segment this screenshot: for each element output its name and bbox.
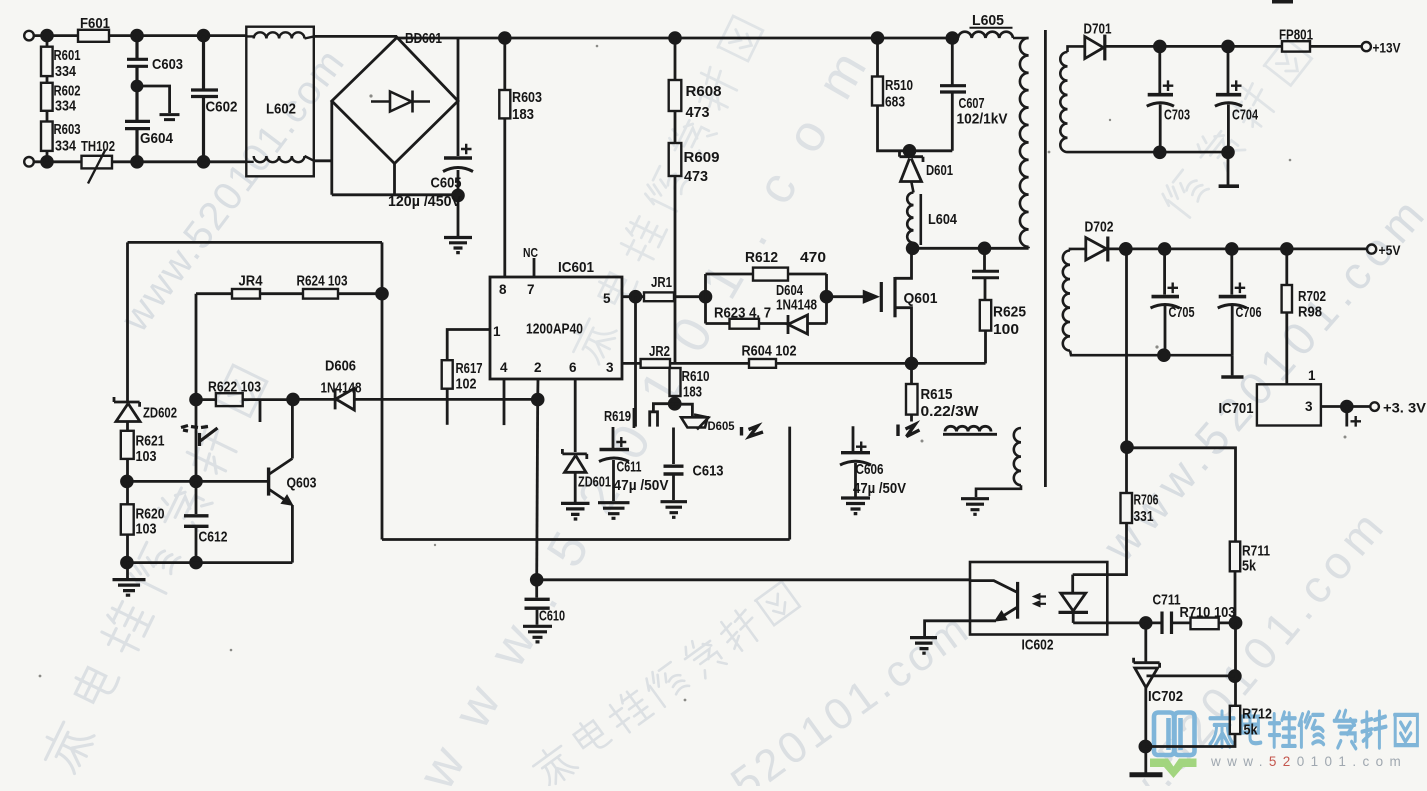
node JR4 rail right xyxy=(377,288,388,299)
wire AC top rail xyxy=(34,34,397,38)
diode D604 xyxy=(788,315,808,334)
wire FP801 to terminal xyxy=(1310,45,1361,48)
svg-text:+3. 3V: +3. 3V xyxy=(1383,400,1427,416)
ground small input xyxy=(160,115,180,120)
capacitor C704 xyxy=(1227,46,1230,152)
svg-text:D605: D605 xyxy=(708,419,735,433)
svg-text:R604 102: R604 102 xyxy=(742,343,797,360)
svg-text:NC: NC xyxy=(523,245,538,260)
svg-text:183: 183 xyxy=(512,106,534,123)
crystal-like mark xyxy=(650,412,658,427)
wire D605 to C613 xyxy=(672,428,675,465)
zener ZD602 xyxy=(114,397,140,422)
wire loop bottom rail xyxy=(382,538,790,541)
resistor R603 input xyxy=(46,151,49,162)
IC602 led xyxy=(1071,575,1074,594)
svg-text:C611: C611 xyxy=(617,459,642,476)
svg-text:R624 103: R624 103 xyxy=(297,273,348,290)
svg-text:R609: R609 xyxy=(684,149,720,166)
resistor R712 xyxy=(1230,706,1240,734)
node 5V d xyxy=(1281,244,1292,255)
node Q603 collector xyxy=(288,394,299,405)
terminal input top xyxy=(24,31,34,41)
capacitor C610 xyxy=(535,580,538,625)
scribble mark right of D605 xyxy=(742,426,764,437)
wire R706 to IC602 xyxy=(1073,523,1127,575)
mosfet Q601 gate arrow xyxy=(864,291,879,303)
ground C605 xyxy=(444,238,472,253)
wire pin2 down to C610 xyxy=(537,400,538,580)
svg-text:6: 6 xyxy=(569,360,577,375)
svg-text:R615: R615 xyxy=(921,386,953,403)
transformer feedback winding xyxy=(976,428,1021,497)
optocoupler IC602 box xyxy=(970,562,1107,635)
wire primary bottom rail xyxy=(913,247,1029,250)
IC602 phototransistor xyxy=(970,581,1017,592)
svg-text:ZD602: ZD602 xyxy=(143,405,177,422)
svg-text:L604: L604 xyxy=(928,211,958,228)
node 5V b xyxy=(1159,244,1170,255)
resistor R615 xyxy=(910,363,913,384)
svg-text:473: 473 xyxy=(684,168,708,185)
wire R620 ground stem xyxy=(126,563,129,578)
terminal +3.3V xyxy=(1370,402,1379,411)
svg-text:R603: R603 xyxy=(512,89,542,106)
logo chinese title xyxy=(1210,711,1417,749)
resistor R619 stub xyxy=(613,408,634,448)
resistor R610 xyxy=(674,366,677,369)
svg-text:R617: R617 xyxy=(456,360,483,377)
node 5V a xyxy=(1120,244,1131,255)
svg-text:IC701: IC701 xyxy=(1219,400,1254,417)
node top-b xyxy=(132,30,143,41)
wire R706 top xyxy=(1125,249,1128,493)
wire JR4 branch corner xyxy=(196,294,232,400)
node rail L605 xyxy=(947,33,958,44)
wire BD601 bottom rail xyxy=(332,164,458,195)
inductor L605 xyxy=(958,32,1029,38)
watermark band top-center chinese xyxy=(566,14,766,366)
IC601 pin6 wire xyxy=(574,379,577,452)
wire JR1 to network xyxy=(674,295,706,298)
wire loop right edge xyxy=(381,242,384,539)
wire right edge of loop xyxy=(788,427,791,540)
mosfet Q601 xyxy=(880,282,883,312)
choke L602 box xyxy=(246,27,313,177)
svg-text:R712: R712 xyxy=(1242,706,1272,723)
diode D701 xyxy=(1085,37,1104,59)
zener D601 xyxy=(900,152,924,182)
svg-text:R601: R601 xyxy=(54,47,81,64)
svg-text:FP801: FP801 xyxy=(1279,27,1313,44)
watermark band bottom-right url xyxy=(1057,502,1393,791)
svg-text:Q603: Q603 xyxy=(287,475,317,492)
svg-text:1: 1 xyxy=(1308,368,1316,383)
ground IC602 xyxy=(910,638,937,654)
wire R604 to R625 xyxy=(776,362,986,365)
wire loop top edge xyxy=(128,241,383,244)
ground C611 xyxy=(598,503,630,519)
node C612 top xyxy=(191,476,202,487)
node pin2 rail xyxy=(532,394,543,405)
ground 13V xyxy=(1227,152,1230,184)
wire branch to R711 xyxy=(1127,448,1236,542)
resistor R617 xyxy=(442,360,453,389)
capacitor C607 xyxy=(951,38,954,151)
wire base rail xyxy=(127,400,269,482)
svg-text:7: 7 xyxy=(527,282,535,297)
wire R624 to loop edge xyxy=(338,292,382,295)
shunt reg IC702 xyxy=(1134,623,1160,688)
wire node down xyxy=(1234,623,1237,706)
node C703 bottom xyxy=(1154,147,1165,158)
svg-text:334: 334 xyxy=(55,98,77,115)
node R712 top xyxy=(1229,671,1240,682)
svg-text:TH102: TH102 xyxy=(81,138,115,155)
snubber capacitor xyxy=(983,248,986,300)
IC602 emitter arrow xyxy=(995,611,1006,621)
wire R711 to node xyxy=(1234,571,1237,623)
node R622 left xyxy=(191,394,202,405)
resistor R710 xyxy=(1191,618,1219,630)
node network right xyxy=(821,291,832,302)
node R610 bottom xyxy=(669,398,680,409)
svg-text:331: 331 xyxy=(1134,508,1154,525)
choke L602 bottom winding xyxy=(246,156,314,162)
svg-text:C606: C606 xyxy=(856,461,884,478)
node bot-c xyxy=(198,156,209,167)
capacitor C605 xyxy=(444,156,472,160)
wire Q601 source xyxy=(895,308,912,364)
fuse F601 xyxy=(78,30,109,42)
node R706 top xyxy=(1120,244,1131,255)
svg-text:120µ /450V: 120µ /450V xyxy=(388,193,461,210)
svg-text:102: 102 xyxy=(456,376,477,393)
capacitor C606 xyxy=(853,426,856,496)
svg-text:R706: R706 xyxy=(1134,492,1159,509)
transformer core line xyxy=(1044,30,1047,487)
node bot-b xyxy=(132,156,143,167)
wire Q603 collector xyxy=(291,399,294,458)
node Q601 source rail xyxy=(906,358,917,369)
node rail R510 xyxy=(872,33,883,44)
svg-text:R702: R702 xyxy=(1298,288,1326,305)
wire node to pin5 vertical xyxy=(634,297,637,427)
svg-text:F601: F601 xyxy=(80,15,110,32)
svg-text:183: 183 xyxy=(683,384,702,401)
node rail R608 xyxy=(670,33,681,44)
svg-text:C711: C711 xyxy=(1153,592,1181,609)
svg-text:C605: C605 xyxy=(431,175,462,192)
wire emitter bottom rail xyxy=(127,561,293,564)
transformer primary winding xyxy=(1020,38,1029,248)
capacitor C706 xyxy=(1230,249,1233,355)
underline L605 xyxy=(970,27,1013,29)
capacitor C613 xyxy=(664,466,684,474)
capacitor C703 xyxy=(1158,46,1161,152)
IC601 pin1 wire xyxy=(447,330,490,361)
wire Q603 emitter down xyxy=(291,505,294,562)
watermark band right url xyxy=(1092,189,1427,571)
IC601 pin2 wire xyxy=(536,379,539,399)
watermark band right chinese xyxy=(1156,35,1314,221)
node C612 bottom xyxy=(191,557,202,568)
svg-text:R98: R98 xyxy=(1298,304,1322,321)
resistor R608 xyxy=(674,38,677,80)
wire JR2 to R604 xyxy=(670,362,749,365)
mosfet Q601 gate wire xyxy=(827,295,865,298)
svg-text:C602: C602 xyxy=(206,99,238,116)
resistor R510 xyxy=(876,38,879,77)
wire IC702 anode down xyxy=(1144,688,1147,773)
IC601 pin3 wire xyxy=(622,362,641,365)
svg-text:ZD601: ZD601 xyxy=(578,474,611,491)
node rail R603 xyxy=(499,33,510,44)
node D601 top xyxy=(904,145,915,156)
svg-text:R603: R603 xyxy=(54,121,81,138)
scan specks xyxy=(39,45,1347,702)
wire led cathode out xyxy=(1073,622,1146,625)
svg-text:5k: 5k xyxy=(1244,722,1259,739)
wire AC bottom rail xyxy=(34,161,332,162)
svg-text:C704: C704 xyxy=(1232,107,1258,124)
svg-text:R623 4. 7: R623 4. 7 xyxy=(714,305,771,322)
svg-text:470: 470 xyxy=(800,249,826,266)
IC701 pin3 wire xyxy=(1321,405,1341,408)
svg-text:1: 1 xyxy=(493,324,501,339)
svg-text:C613: C613 xyxy=(693,463,724,480)
svg-text:L605: L605 xyxy=(972,12,1004,29)
node R621 bottom xyxy=(122,476,133,487)
wire 5V rail xyxy=(1108,247,1367,250)
watermark band center url xyxy=(407,42,878,791)
resistor R602 xyxy=(46,111,49,122)
wire ZD601 to ground xyxy=(574,472,577,502)
wire R702 to IC701 xyxy=(1285,313,1288,385)
svg-text:BD601: BD601 xyxy=(405,30,442,47)
svg-text:JR2: JR2 xyxy=(649,343,670,360)
bridge rectifier BD601 xyxy=(332,37,458,163)
svg-text:8: 8 xyxy=(499,282,507,297)
node bot-a xyxy=(42,156,53,167)
resistor R604 xyxy=(749,359,776,368)
scribble mark near R615 xyxy=(898,425,920,437)
resistor R623 xyxy=(730,319,760,329)
svg-text:100: 100 xyxy=(993,321,1019,338)
diode D606 xyxy=(335,388,354,410)
diode D702 xyxy=(1086,238,1107,260)
svg-text:C610: C610 xyxy=(539,608,565,625)
node R620 bottom xyxy=(122,557,133,568)
wire R510 elbow xyxy=(878,106,953,151)
IC601 pin5 wire xyxy=(622,295,644,298)
node C603 xyxy=(132,81,142,91)
svg-text:2: 2 xyxy=(534,360,542,375)
terminal input bottom xyxy=(24,157,34,167)
wire R712 bottom xyxy=(1145,734,1235,747)
ground C610 xyxy=(523,626,552,642)
svg-text:0.22/3W: 0.22/3W xyxy=(921,403,980,420)
wire feedback rail xyxy=(293,398,537,401)
svg-text:47µ /50V: 47µ /50V xyxy=(853,480,906,497)
IC602 coupling arrows xyxy=(1037,597,1047,604)
wire BD601 right to C605 xyxy=(457,38,460,156)
node top-a xyxy=(42,30,53,41)
svg-text:+13V: +13V xyxy=(1373,40,1402,56)
svg-text:102/1kV: 102/1kV xyxy=(957,111,1008,128)
svg-text:103: 103 xyxy=(136,521,157,538)
node L604 bottom xyxy=(907,243,918,254)
jumper JR2 xyxy=(641,359,670,368)
inductor L604 xyxy=(907,182,921,249)
wire R609 down to JR2 junction xyxy=(674,176,677,363)
wire IC602 emitter to ground xyxy=(925,621,996,636)
wire C610 to optocoupler xyxy=(537,578,970,581)
diode D605 scribbled xyxy=(681,415,709,430)
node C704 bottom xyxy=(1223,147,1234,158)
wire node to terminal xyxy=(1347,405,1370,408)
capacitor C611 xyxy=(616,437,626,447)
svg-text:R619: R619 xyxy=(604,408,631,425)
capacitor C604 xyxy=(125,86,150,162)
svg-text:R608: R608 xyxy=(686,83,722,100)
zener ZD601 xyxy=(562,449,586,472)
node C610 xyxy=(531,574,542,585)
svg-text:C706: C706 xyxy=(1236,304,1262,321)
fuse FP801 xyxy=(1282,41,1310,51)
svg-text:IC601: IC601 xyxy=(558,259,594,276)
svg-text:D606: D606 xyxy=(325,358,356,375)
node C703 top xyxy=(1154,41,1165,52)
node R706 branch xyxy=(1122,442,1133,453)
node C605 xyxy=(453,190,464,201)
cut-off label at top edge xyxy=(1272,0,1293,4)
resistor R711 xyxy=(1230,542,1240,572)
wire R603 to pin8 xyxy=(503,118,506,277)
wire R622 left xyxy=(196,398,216,401)
watermark band center-bottom url xyxy=(623,605,976,791)
transformer 13V winding xyxy=(1060,46,1228,152)
svg-text:C603: C603 xyxy=(152,56,183,73)
svg-text:C703: C703 xyxy=(1164,107,1190,124)
thermistor TH102 xyxy=(82,156,113,169)
transistor Q603 xyxy=(267,468,270,496)
logo book icon blue pages xyxy=(1154,713,1195,756)
resistor R620 xyxy=(126,481,129,504)
node top-c xyxy=(198,30,209,41)
svg-text:D702: D702 xyxy=(1085,219,1114,236)
ground C606 xyxy=(841,498,870,514)
svg-text:IC602: IC602 xyxy=(1022,637,1054,654)
regulator IC701 xyxy=(1257,384,1321,425)
ground left section xyxy=(113,580,146,596)
wire R710 to node xyxy=(1219,622,1236,625)
svg-text:D701: D701 xyxy=(1084,21,1112,38)
choke L602 top winding xyxy=(246,32,314,38)
ground feedback winding xyxy=(961,499,989,515)
svg-text:G604: G604 xyxy=(140,130,174,147)
resistor R601 xyxy=(46,36,49,83)
node C704 top xyxy=(1223,41,1234,52)
node R711 R710 xyxy=(1230,617,1241,628)
svg-text:+5V: +5V xyxy=(1379,242,1402,258)
svg-text:1200AP40: 1200AP40 xyxy=(526,321,583,338)
IC601 pin4 stub xyxy=(503,379,506,425)
resistor R603 startup xyxy=(503,38,506,90)
wire Q601 drain xyxy=(895,248,912,278)
jumper JR1 xyxy=(644,292,674,301)
resistor R612 xyxy=(753,268,788,281)
resistor R706 xyxy=(1121,493,1133,523)
capacitor C711 xyxy=(1146,622,1191,625)
terminal +5V xyxy=(1367,245,1376,254)
node network left xyxy=(700,291,711,302)
watermark band left chinese xyxy=(37,363,270,776)
IC601 pin7 NC stub xyxy=(533,258,536,277)
svg-text:JR4: JR4 xyxy=(239,273,264,290)
resistor R609 xyxy=(674,111,677,143)
svg-text:47µ /50V: 47µ /50V xyxy=(614,477,669,494)
scribbled-out winding mark xyxy=(943,426,997,434)
stub cap below 3.3V xyxy=(1345,407,1348,427)
node 5V c xyxy=(1226,244,1237,255)
svg-text:5k: 5k xyxy=(1242,558,1257,575)
svg-text:IC702: IC702 xyxy=(1148,688,1183,705)
capacitor C602 xyxy=(191,36,218,162)
wire C603-gnd xyxy=(137,86,170,113)
svg-text:www.520101.com: www.520101.com xyxy=(1210,754,1407,769)
svg-text:Q601: Q601 xyxy=(904,290,938,307)
transformer 5V winding xyxy=(1063,249,1232,355)
op-amp IC601 box xyxy=(490,277,622,379)
wire 13V rail xyxy=(1105,45,1282,48)
svg-text:R710 103: R710 103 xyxy=(1180,604,1236,621)
BD601 inner diode xyxy=(371,91,430,113)
wire RC network frame xyxy=(706,274,827,324)
node C705 bottom xyxy=(1159,350,1170,361)
svg-text:473: 473 xyxy=(686,104,710,121)
wire main HV rail xyxy=(397,37,952,40)
capacitor C603 xyxy=(127,36,148,86)
node led cathode xyxy=(1140,618,1151,629)
wire IC702 ref xyxy=(1147,675,1235,678)
ground IC702 xyxy=(1130,772,1163,777)
wire R617 to rail xyxy=(446,389,449,425)
stub below R622 xyxy=(259,400,262,422)
svg-text:R612: R612 xyxy=(745,249,778,266)
logo book icon green base xyxy=(1150,759,1197,779)
svg-text:103: 103 xyxy=(136,448,157,465)
svg-text:334: 334 xyxy=(55,138,77,155)
node pin5 xyxy=(630,291,641,302)
svg-text:R610: R610 xyxy=(682,368,710,385)
svg-text:1N4148: 1N4148 xyxy=(321,380,362,397)
svg-text:C607: C607 xyxy=(959,95,985,112)
capacitor C612 xyxy=(195,481,198,562)
svg-text:4: 4 xyxy=(500,360,508,375)
svg-text:C705: C705 xyxy=(1169,304,1195,321)
svg-text:R622 103: R622 103 xyxy=(208,379,261,396)
svg-text:D601: D601 xyxy=(926,162,953,179)
resistor R622 xyxy=(216,393,243,406)
Q603 emitter arrow xyxy=(282,495,293,505)
scribble Q602 xyxy=(181,426,218,447)
svg-text:1N4148: 1N4148 xyxy=(776,297,817,314)
resistor R702 xyxy=(1285,249,1288,285)
node IC702 bottom xyxy=(1140,741,1151,752)
svg-text:R510: R510 xyxy=(885,77,913,94)
capacitor C705 xyxy=(1163,249,1166,355)
